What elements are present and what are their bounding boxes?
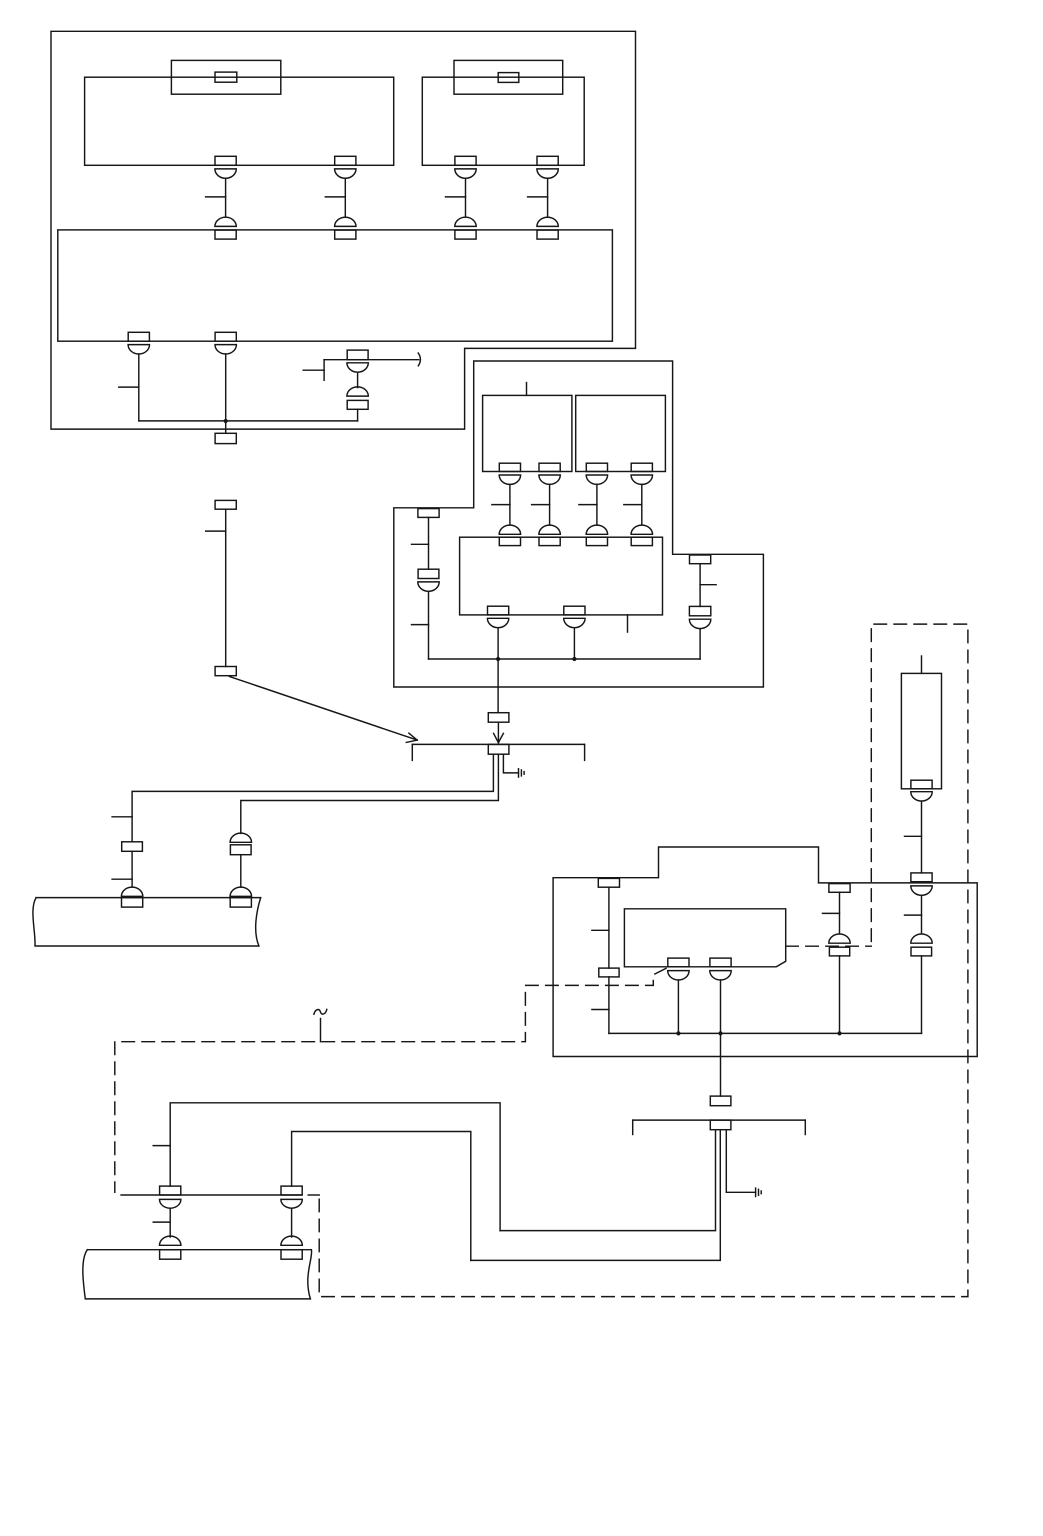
fuse box A outline: [85, 77, 394, 165]
engine compartment outer box (notched polygon): [51, 31, 636, 429]
junction node on wire: [224, 419, 228, 423]
wire stub to dashed net: [308, 1194, 319, 1196]
wire: front harness lead A: [170, 1103, 500, 1231]
fuse box A cover (overlapping box): [171, 60, 280, 94]
wire: G1 left pin: [132, 754, 493, 842]
right chain of control unit: edge connector: [690, 555, 717, 606]
inline connector plug (cap and rect): [230, 833, 251, 855]
dashed net: link to rear relay block: [786, 945, 872, 947]
rear unit right chain: plug (cap and rect): [911, 934, 932, 1033]
wire: relay block to ground bar feed: [497, 659, 499, 713]
fuse F2 element: [498, 73, 519, 83]
lead A connector (rect and bowl): [153, 1186, 181, 1237]
inline connector terminal: [122, 842, 143, 852]
wire: link between lead connectors: [121, 1194, 302, 1196]
module box C: [483, 395, 572, 471]
connector pair CQ1 (module to relay block): [492, 463, 521, 545]
wire: rear unit internal bus: [609, 1032, 922, 1034]
wire below inline plug: [240, 855, 242, 887]
antenna unit component (tall rect in dashed box): [901, 656, 941, 789]
fuse F1 element: [215, 72, 237, 82]
relay connector (rect and socket): [347, 350, 368, 421]
wire: G2 right pin to chassis ground: [726, 1130, 755, 1193]
connector CS1 on rear relay block: [668, 958, 689, 1033]
junction block bus box: [58, 230, 613, 341]
connector CR2 on relay block bottom: [564, 606, 585, 659]
connector CB1 on junction block bottom: [119, 332, 150, 421]
junction node: [572, 657, 576, 661]
rear unit mid chain: edge connector: [823, 884, 851, 934]
wire harness ribbon 1 (torn ends): [33, 898, 261, 946]
tick on lead A: [153, 1145, 170, 1147]
connector terminal T3 (bottom of jumper lead): [215, 667, 236, 676]
left chain of control unit: edge connector: [412, 509, 440, 570]
right chain inline connector (rect and socket): [689, 606, 710, 659]
leader arrow from terminal T3 to ground bar: [230, 677, 418, 743]
AC source symbol (tilde): [314, 1009, 327, 1014]
wire: junction block bottom bus: [139, 420, 358, 422]
wire: G2 middle pin: [471, 1130, 721, 1261]
connector pair CP4 (fuse box to junction block): [528, 156, 559, 239]
connector terminal T5 on ground bar 2 feed: [710, 1096, 731, 1106]
control unit enclosure (8-sided polygon): [394, 361, 764, 687]
dashed net: bottom loop: [319, 624, 968, 1297]
relay switch lever line with hooked arrow: [303, 353, 420, 380]
connector pair CQ4 (module to relay block): [624, 463, 653, 545]
connector pair CP2 (fuse box to junction block): [325, 156, 356, 239]
wire: G1 center pin: [241, 754, 499, 833]
wire: control unit internal bus: [429, 658, 701, 660]
tick on wire: [112, 878, 132, 880]
junction node: [718, 1031, 722, 1035]
rear unit enclosure (stepped box): [553, 847, 977, 1057]
stub lead on module box C: [526, 383, 528, 396]
lead B connector (rect and bowl): [281, 1186, 302, 1237]
connector pair CQ2 (module to relay block): [532, 463, 561, 545]
harness connector plug H1a (cap and rect): [121, 887, 142, 907]
AC source lead: [320, 1019, 322, 1042]
chassis ground symbol GND1: [519, 769, 525, 777]
ground bar G2: [633, 1120, 806, 1134]
edge connector into rear unit (rect and bowl): [905, 873, 933, 934]
down arrow into ground bar: [494, 722, 504, 742]
wire: jumper lead: [225, 509, 227, 666]
tick on jumper lead: [206, 530, 226, 532]
module box D: [576, 395, 666, 471]
tick on G1 left pin: [112, 816, 132, 818]
connector terminal on ground bar G2: [710, 1120, 731, 1130]
harness connector plug H2b (cap and rect): [281, 1236, 302, 1259]
wire harness ribbon 2 (torn ends): [83, 1250, 312, 1299]
dashed net: control-area branch: [115, 968, 666, 1192]
connector CB2 on junction block bottom: [215, 332, 236, 433]
junction node: [496, 657, 500, 661]
connector pair CP3 (fuse box to junction block): [446, 156, 477, 239]
harness connector plug H2a (cap and rect): [160, 1236, 181, 1259]
junction node: [837, 1031, 841, 1035]
rear unit mid chain: plug (cap and rect): [829, 934, 850, 1033]
connector pair CP1 (fuse box to junction block): [206, 156, 237, 239]
fuse box B cover (overlapping box): [454, 60, 563, 94]
wire: front harness lead B: [292, 1132, 471, 1261]
harness connector plug H1b (cap and rect): [230, 887, 251, 907]
connector terminal on ground bar G1: [488, 744, 509, 754]
connector CR1 on relay block bottom: [487, 606, 508, 659]
relay block box (inner box): [460, 537, 663, 615]
fuse box B outline: [422, 77, 584, 165]
wire: G1 right pin to chassis ground: [503, 754, 518, 773]
stub pin on relay block bottom: [627, 615, 629, 632]
rear unit left chain: edge connector: [592, 878, 620, 968]
connector at antenna unit base: [905, 780, 933, 873]
connector terminal T4 on ground feed: [488, 713, 509, 723]
connector terminal T2 (top of jumper lead): [215, 500, 236, 509]
chassis ground symbol GND2: [756, 1188, 762, 1196]
connector CS2 on rear relay block: [710, 958, 731, 1096]
rear relay block (inner box with beveled corner): [624, 909, 785, 967]
left chain inline connector (rect and socket): [412, 569, 440, 659]
rear unit left chain: inline terminal: [592, 968, 619, 1033]
wire below inline terminal: [131, 851, 133, 887]
connector terminal T1 below outer box edge: [215, 433, 236, 443]
connector pair CQ3 (module to relay block): [579, 463, 608, 545]
junction node: [676, 1031, 680, 1035]
ground bar G1: [412, 744, 584, 760]
wire: G2 left pin: [500, 1130, 715, 1231]
